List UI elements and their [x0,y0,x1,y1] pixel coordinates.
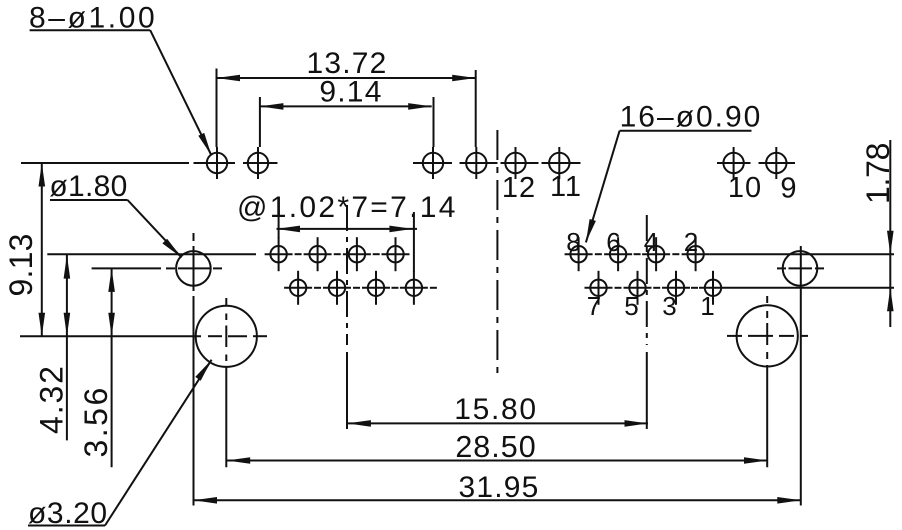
svg-text:12: 12 [502,172,536,204]
svg-text:8: 8 [566,227,580,257]
svg-text:10: 10 [728,172,762,204]
svg-text:4.32: 4.32 [34,364,70,434]
svg-text:16–ø0.90: 16–ø0.90 [620,101,763,134]
svg-text:9: 9 [780,173,797,205]
svg-text:31.95: 31.95 [458,471,539,504]
svg-text:28.50: 28.50 [455,430,536,464]
svg-text:1: 1 [700,291,714,321]
svg-text:1.78: 1.78 [860,143,896,204]
svg-text:5: 5 [624,291,638,321]
svg-text:6: 6 [606,227,620,257]
svg-text:3.56: 3.56 [78,385,114,457]
svg-text:15.80: 15.80 [454,393,538,426]
svg-text:7: 7 [587,291,601,321]
svg-text:11: 11 [550,171,582,203]
svg-text:9.13: 9.13 [3,233,39,296]
svg-text:3: 3 [662,291,676,321]
svg-text:ø1.80: ø1.80 [49,170,127,203]
svg-text:2: 2 [684,227,698,257]
svg-text:9.14: 9.14 [319,76,382,109]
